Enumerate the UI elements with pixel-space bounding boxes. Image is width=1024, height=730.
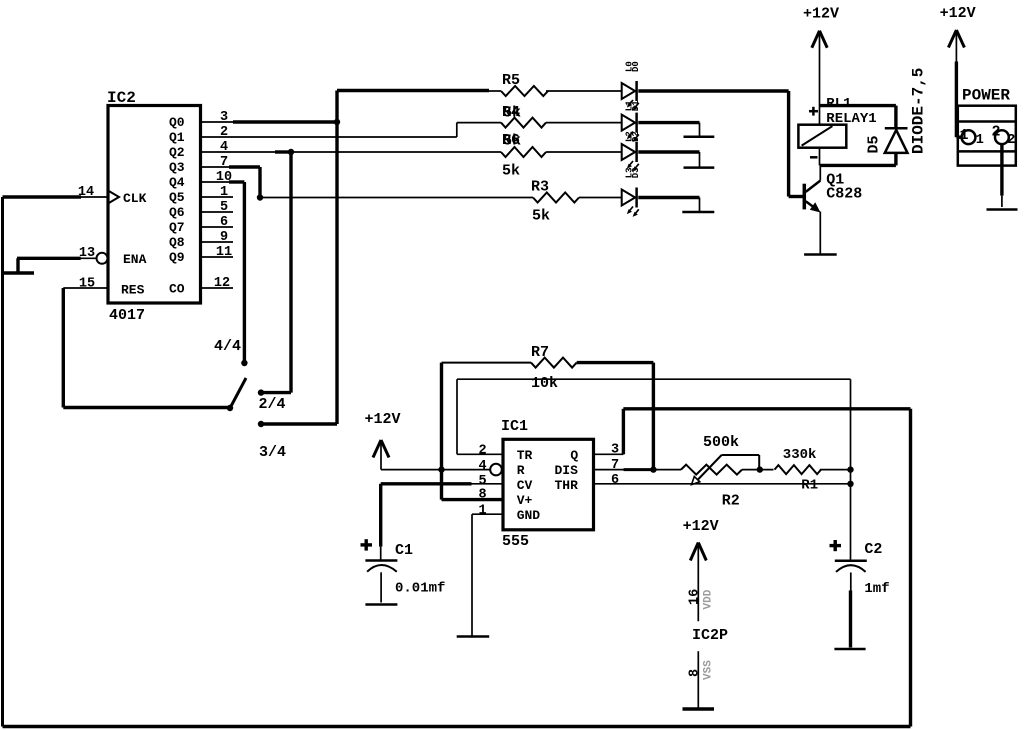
wire R1 right <box>820 469 851 471</box>
ground (POWER) <box>987 208 1018 211</box>
svg-text:9: 9 <box>220 230 228 245</box>
svg-text:C2: C2 <box>864 541 882 558</box>
ground (LD3) <box>682 211 714 214</box>
svg-text:DIS: DIS <box>555 463 579 478</box>
svg-text:Q5: Q5 <box>169 190 185 205</box>
pin stub Q0 (pin 3) <box>201 121 234 123</box>
svg-text:1: 1 <box>976 133 984 148</box>
pin stub Q8 (pin 9) <box>201 241 234 243</box>
svg-text:7: 7 <box>611 458 619 473</box>
svg-text:R2: R2 <box>722 493 740 510</box>
junction 3/4 contact <box>258 421 264 427</box>
svg-text:16: 16 <box>688 589 703 605</box>
ground (IC2P VSS) <box>683 707 715 710</box>
svg-text:5k: 5k <box>503 105 521 122</box>
svg-text:CO: CO <box>169 282 185 297</box>
wire Q0 pin3 to junction <box>233 120 337 123</box>
wire LD1 to ground <box>638 121 699 124</box>
svg-text:1: 1 <box>220 185 228 200</box>
svg-text:TR: TR <box>517 448 533 463</box>
wire CV pin5 to C1 <box>381 482 472 485</box>
ground (LD2) <box>684 166 715 169</box>
svg-text:GND: GND <box>517 508 541 523</box>
plus sign (relay coil) <box>809 110 818 113</box>
pin stub Q1 (pin 2) <box>201 136 234 138</box>
wire R5 to LED LD0 <box>546 90 622 92</box>
wire LD0 cathode to transistor base line <box>638 89 788 92</box>
svg-text:D3: D3 <box>631 167 641 178</box>
svg-text:5: 5 <box>220 200 228 215</box>
pin stub Q2 (pin 4) <box>201 151 234 153</box>
svg-text:ENA: ENA <box>123 252 147 267</box>
svg-text:2: 2 <box>1007 133 1015 148</box>
svg-text:555: 555 <box>502 533 529 550</box>
svg-text:Q6: Q6 <box>169 205 185 220</box>
svg-text:11: 11 <box>216 245 232 260</box>
wire LD3 to ground <box>638 196 699 199</box>
svg-text:+12V: +12V <box>364 411 400 428</box>
svg-text:R7: R7 <box>531 344 549 361</box>
pin stub CO (pin 12) <box>201 287 234 289</box>
resistor R1 <box>775 465 822 474</box>
wire R pin4 <box>381 469 490 471</box>
ground (555 GND) <box>457 635 490 638</box>
wire R4 to LED LD1 <box>546 122 622 124</box>
svg-text:+12V: +12V <box>683 518 719 535</box>
svg-text:R3: R3 <box>531 179 549 196</box>
svg-text:R5: R5 <box>502 72 520 89</box>
svg-text:4: 4 <box>220 140 228 155</box>
svg-text:4: 4 <box>478 459 486 474</box>
wire relay bottom rail <box>819 148 821 166</box>
diode D5 <box>885 127 908 130</box>
svg-text:15: 15 <box>79 277 95 292</box>
svg-text:IC2P: IC2P <box>692 627 728 644</box>
wire Q2 vertical riser <box>289 152 292 393</box>
svg-text:Q4: Q4 <box>169 175 185 190</box>
capacitor C1 <box>365 559 397 562</box>
switch pole junction <box>227 405 233 411</box>
svg-text:POWER: POWER <box>962 87 1010 105</box>
wire Q2 pin4 <box>233 151 501 153</box>
power +12V arrow (IC2P) <box>690 543 698 561</box>
svg-text:Q7: Q7 <box>169 220 185 235</box>
junction 2/4 contact <box>258 389 264 395</box>
svg-text:1mf: 1mf <box>864 581 889 597</box>
pin stub Q5 (pin 1) <box>201 196 234 198</box>
pin stub Q9 (pin 11) <box>201 256 234 258</box>
svg-text:+12V: +12V <box>940 5 976 22</box>
svg-text:330k: 330k <box>783 447 817 463</box>
pin ENA inversion bubble <box>97 253 108 264</box>
svg-text:2/4: 2/4 <box>259 396 286 413</box>
wire TR feedback line <box>456 379 458 454</box>
svg-text:D2: D2 <box>631 131 641 142</box>
svg-text:C828: C828 <box>826 186 862 203</box>
svg-text:Q9: Q9 <box>169 250 185 265</box>
LED LD1 <box>622 115 635 131</box>
svg-text:3: 3 <box>611 443 619 458</box>
svg-text:0.01mf: 0.01mf <box>395 581 445 597</box>
wire to R3 <box>260 197 533 199</box>
wire Q pin3 stub <box>594 453 624 455</box>
svg-text:2: 2 <box>992 124 1001 141</box>
wire Q4 pin10 <box>229 180 244 183</box>
svg-text:R1: R1 <box>801 478 818 494</box>
svg-text:3: 3 <box>220 110 228 125</box>
pin stub Q7 (pin 6) <box>201 226 234 228</box>
svg-text:10k: 10k <box>531 375 558 392</box>
svg-text:7: 7 <box>220 155 228 170</box>
junction THR node <box>847 481 853 487</box>
wire Q1 base <box>789 195 803 198</box>
svg-text:CLK: CLK <box>123 191 147 206</box>
plus sign (C2) <box>830 544 842 547</box>
resistor R2 potentiometer <box>681 465 742 475</box>
IC U2 4017 box <box>108 106 201 304</box>
wire Q0 vertical riser <box>335 91 338 425</box>
junction 4/4 contact <box>241 360 247 366</box>
svg-text:Q0: Q0 <box>169 115 185 130</box>
ground (C1) <box>365 603 397 606</box>
svg-text:Q3: Q3 <box>169 160 185 175</box>
svg-text:VSS: VSS <box>703 660 715 680</box>
svg-text:RL1: RL1 <box>826 96 851 112</box>
svg-text:1: 1 <box>478 504 486 519</box>
svg-text:THR: THR <box>555 478 579 493</box>
junction DIS node <box>650 466 656 472</box>
svg-text:5k: 5k <box>503 133 521 150</box>
pin CLK clock triangle <box>108 191 119 204</box>
svg-text:+12V: +12V <box>803 6 839 23</box>
wire bottom rail <box>3 725 911 729</box>
connector POWER terminal 1 <box>962 130 976 144</box>
svg-text:5k: 5k <box>502 163 520 180</box>
wire TR pin2 stub <box>457 453 503 455</box>
svg-text:3/4: 3/4 <box>259 444 286 461</box>
wire RES pin15 <box>63 287 108 289</box>
wire Q1 emitter to ground <box>819 212 821 254</box>
pin stub Q6 (pin 5) <box>201 211 234 213</box>
connector POWER terminal 2 <box>995 130 1009 144</box>
wire relay top rail <box>820 104 896 107</box>
junction Q2 node <box>288 149 294 155</box>
svg-text:4017: 4017 <box>109 307 145 324</box>
svg-text:1: 1 <box>960 127 969 144</box>
resistor R7 <box>531 358 577 368</box>
svg-text:Q8: Q8 <box>169 235 185 250</box>
wire left rail (555 output to CLK) <box>1 197 4 727</box>
svg-text:4/4: 4/4 <box>214 338 241 355</box>
wire R7 left to +12V rail <box>442 362 532 364</box>
wire POWER pin2 to ground <box>1000 144 1003 195</box>
wire R2 to R1 <box>742 469 774 471</box>
wire LD2 to ground <box>638 150 699 153</box>
IC U1 555 box <box>503 439 594 530</box>
capacitor C2 <box>835 559 867 562</box>
svg-text:C1: C1 <box>395 542 413 559</box>
resistor R5 <box>501 86 548 96</box>
wire Q3 pin7 <box>229 165 260 168</box>
power +12V arrow (555) <box>373 440 381 458</box>
wire Q1 pin2 <box>233 136 457 138</box>
junction R2 wiper node <box>757 466 763 472</box>
svg-text:500k: 500k <box>703 434 739 451</box>
wire 3/4 contact stub <box>261 422 337 425</box>
svg-text:Q1: Q1 <box>169 130 185 145</box>
wire VDD pin16 <box>697 546 699 621</box>
svg-text:IC1: IC1 <box>501 418 528 435</box>
wire VSS pin8 <box>697 651 699 708</box>
switch arm <box>230 378 246 409</box>
wire R7 right to DIS <box>577 361 654 364</box>
ground (C2) <box>834 648 865 651</box>
wire R6 to LED LD2 <box>546 151 622 153</box>
wire 555 Q output horizontal <box>623 407 910 410</box>
svg-text:RES: RES <box>121 283 145 298</box>
svg-text:12: 12 <box>214 276 230 291</box>
svg-text:DIODE-7,5: DIODE-7,5 <box>910 68 928 154</box>
svg-text:D5: D5 <box>866 135 883 153</box>
power +12V arrow (relay) <box>812 31 820 48</box>
transistor Q1 <box>819 165 821 180</box>
plus sign (C1) <box>361 543 373 546</box>
pin R inversion bubble <box>490 464 502 476</box>
wire C1 lower lead <box>380 572 382 602</box>
svg-text:D1: D1 <box>631 100 641 111</box>
resistor R4 <box>501 118 546 128</box>
wire V+ pin8 <box>440 470 443 500</box>
wire R3 to LED LD3 <box>579 197 622 199</box>
svg-text:D0: D0 <box>631 61 641 72</box>
LED LD0 <box>622 83 635 99</box>
relay RL1 coil box <box>798 125 846 148</box>
wire C2 lower lead <box>850 573 852 591</box>
svg-text:2: 2 <box>220 125 228 140</box>
wire to R5 <box>337 89 489 92</box>
power +12V arrow (POWER) <box>948 30 956 48</box>
svg-text:2: 2 <box>478 444 486 459</box>
pin stub Q3 (pin 7) <box>201 166 234 168</box>
svg-text:CV: CV <box>517 478 533 493</box>
svg-text:VDD: VDD <box>703 589 715 609</box>
svg-text:6: 6 <box>220 215 228 230</box>
junction Q3 corner <box>257 194 263 200</box>
ground (LD1) <box>684 136 715 139</box>
svg-text:V+: V+ <box>517 493 533 508</box>
wire CLK pin14 <box>3 195 82 198</box>
minus sign (relay coil) <box>810 156 818 159</box>
resistor R3 <box>533 193 579 203</box>
wire THR pin6 to C2 node <box>594 483 851 485</box>
junction R1/THR/C2 node <box>847 466 853 472</box>
wire TR/THR vertical to C2 <box>850 379 852 559</box>
LED LD2 <box>622 144 635 160</box>
wire DIS to R2 <box>594 469 682 471</box>
svg-text:Q2: Q2 <box>169 145 185 160</box>
wire right riser from 555 Q <box>909 409 912 727</box>
wire +12V to POWER pin1 <box>955 33 957 62</box>
svg-text:IC2: IC2 <box>107 89 136 107</box>
connector POWER box <box>958 106 1016 166</box>
svg-text:6: 6 <box>611 473 619 488</box>
junction +12V node at 555 <box>438 466 444 472</box>
svg-text:5k: 5k <box>532 208 550 225</box>
LED LD3 <box>622 190 635 206</box>
pin stub Q4 (pin 10) <box>201 181 234 183</box>
junction Q0 node <box>334 119 340 125</box>
wire GND pin1 to ground <box>472 513 503 515</box>
wire ENA pin13 <box>80 257 97 259</box>
ground (Q1 emitter) <box>804 253 837 256</box>
svg-text:R: R <box>517 463 525 478</box>
resistor R6 <box>501 147 546 157</box>
svg-text:Q: Q <box>570 448 578 463</box>
wire +12V to relay <box>819 33 821 125</box>
svg-text:8: 8 <box>688 669 703 677</box>
